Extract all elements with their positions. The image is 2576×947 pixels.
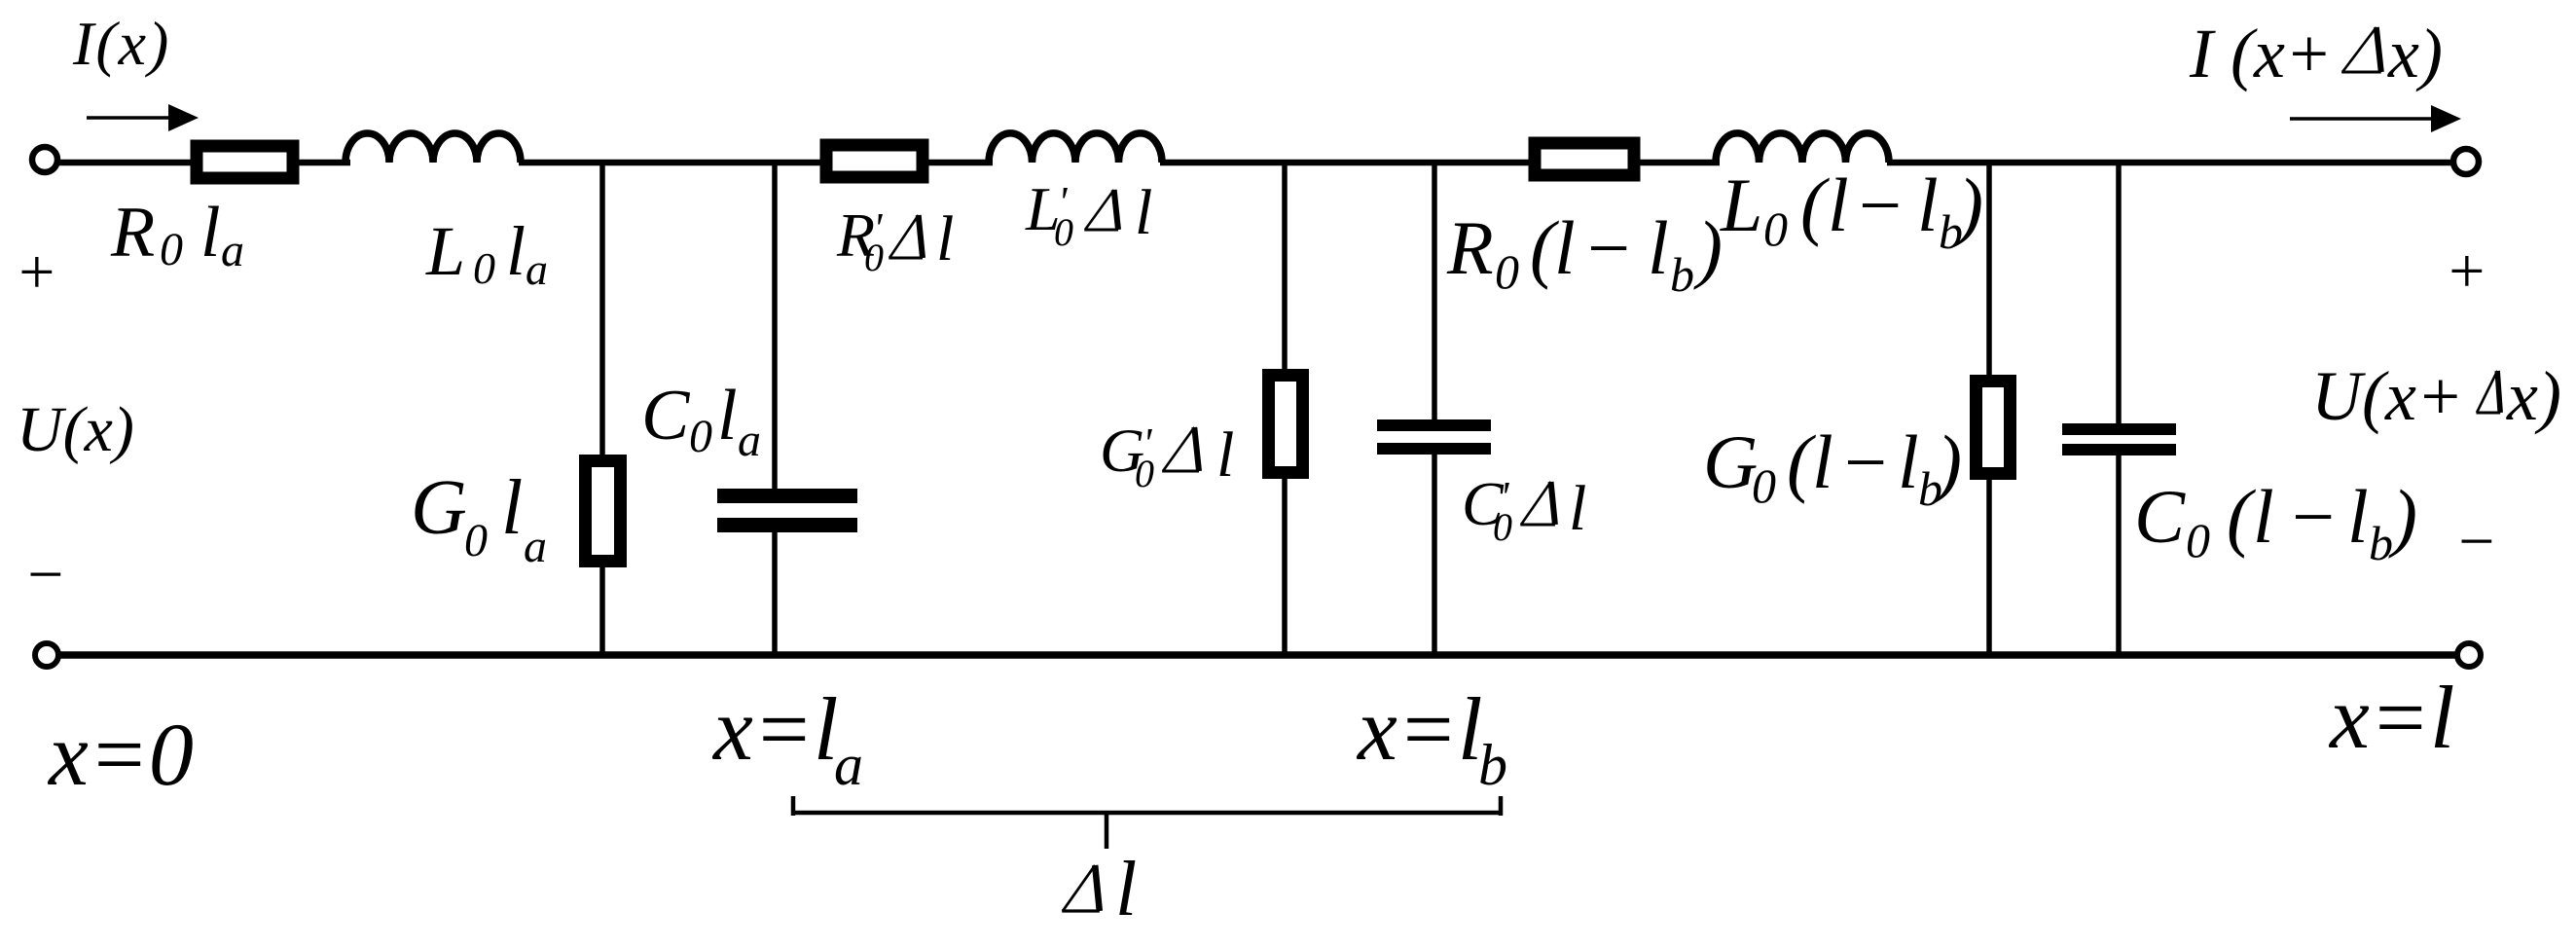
delta of R'0 dl: [889, 215, 923, 258]
svg-text:l: l: [1115, 847, 1137, 932]
svg-text:U(x): U(x): [17, 394, 134, 465]
resistor R0la: [197, 146, 293, 178]
terminal bottom-right: [2457, 643, 2481, 667]
wire shunt C'0 branch: [1432, 163, 1437, 420]
delta of L'0 dl: [1084, 190, 1118, 230]
inductor L0la: [345, 133, 521, 163]
svg-text:+: +: [15, 237, 58, 308]
svg-text:U(x+x): U(x+x): [2311, 357, 2561, 435]
delta of delta-l label: [1062, 865, 1100, 911]
svg-text:x=0: x=0: [47, 705, 194, 804]
wire shunt C0(l-lb) branch: [2116, 163, 2122, 424]
delta of C'0 dl: [1520, 482, 1555, 525]
terminal top-right: [2453, 149, 2479, 174]
brace delta-l: [791, 796, 1503, 849]
svg-text:−: −: [23, 539, 67, 610]
inductor L'0dl: [989, 133, 1162, 163]
arrow I(x): [87, 104, 199, 131]
capacitor C0la: [717, 489, 857, 532]
resistor G0la shunt box: [586, 461, 621, 562]
svg-text:−: −: [2454, 506, 2498, 577]
delta of I(x+dx): [2341, 27, 2381, 72]
resistor R0(l-lb): [1535, 143, 1634, 175]
capacitor C0(l-lb): [2062, 423, 2176, 455]
svg-text:I (x+x): I (x+x): [2189, 15, 2443, 92]
wire shunt C0la branch: [772, 163, 778, 490]
svg-text:+: +: [2445, 236, 2488, 307]
capacitor C'0dl: [1377, 419, 1491, 455]
delta of U(x+dx): [2477, 371, 2501, 413]
svg-text:I(x): I(x): [72, 9, 170, 78]
terminal top-left: [32, 147, 57, 172]
wire shunt G0(l-lb) branch: [1986, 163, 1992, 655]
svg-text:x=l: x=l: [2328, 668, 2454, 767]
wire shunt G'0 branch: [1282, 163, 1288, 655]
arrow I(x+dx): [2290, 105, 2461, 132]
terminal bottom-left: [35, 643, 58, 667]
resistor R'0dl: [826, 145, 923, 177]
node A shunt wire G0la branch: [599, 163, 605, 655]
wire bottom rail: [59, 651, 2457, 659]
delta of G'0 dl: [1162, 427, 1199, 471]
resistor G0(l-lb) shunt box: [1977, 382, 2011, 474]
inductor L0(l-lb): [1716, 133, 1889, 163]
wire top rail: [57, 160, 2453, 166]
resistor G'0dl shunt box: [1269, 376, 1303, 473]
